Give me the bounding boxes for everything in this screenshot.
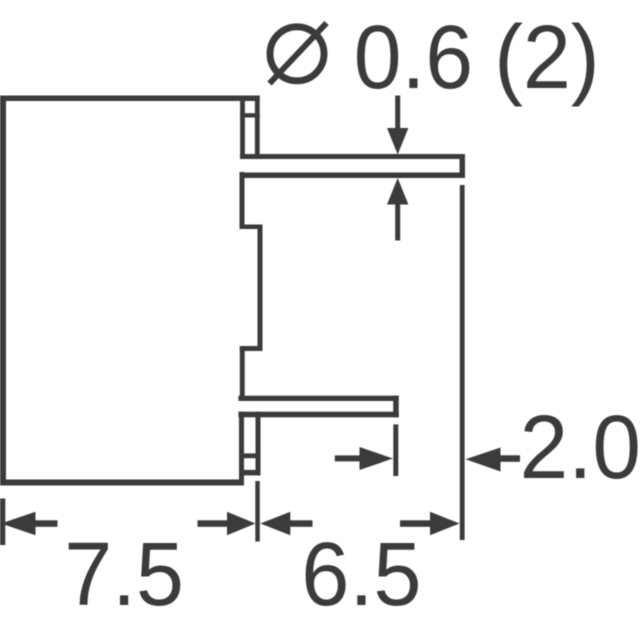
svg-text:0.6: 0.6 [354, 6, 473, 107]
dim 7.5 right arrow shaft [198, 520, 228, 527]
dim 6.5 right arrowhead [430, 512, 460, 535]
component body left edge [0, 96, 6, 486]
dia 0.6 top arrow shaft [395, 96, 400, 133]
body step-out edge [240, 225, 263, 230]
label dia symbol [270, 27, 324, 81]
svg-text:6.5: 6.5 [301, 523, 421, 624]
lower pin end cap [393, 396, 399, 418]
component body top edge [0, 96, 260, 102]
dim 2.0 arrowhead [466, 448, 501, 472]
lower pin bottom edge [238, 412, 398, 418]
body bulge right edge [258, 225, 263, 352]
dim 6.5 right arrow shaft [400, 520, 431, 527]
dim 2.0 arrow shaft [500, 455, 520, 462]
top pin-slot left wall [240, 96, 245, 160]
bottom pin-slot right wall [256, 412, 261, 476]
body right edge above lower pin [240, 346, 245, 401]
bottom pin-slot divider [239, 453, 261, 458]
left extension line below body [0, 499, 5, 546]
bottom pin-slot bottom edge [239, 470, 261, 476]
dim 7.5 left arrow shaft [35, 520, 58, 527]
dim 6.5 left arrow shaft [290, 520, 313, 527]
top pin-slot divider [240, 113, 260, 117]
body right edge below upper pin [240, 172, 245, 229]
svg-text:7.5: 7.5 [64, 523, 184, 624]
dim 6.5 left arrowhead [260, 512, 290, 535]
dim 7.5 right arrowhead [227, 512, 256, 535]
dia 0.6 top arrowhead [387, 128, 408, 155]
bottom pin-slot left wall [239, 412, 244, 486]
body step-in edge [240, 346, 263, 351]
top pin-slot right wall [255, 96, 260, 160]
dim 7.5 left arrowhead [1, 512, 36, 535]
dim 2.0 left arrowhead [360, 447, 394, 470]
svg-text:(2): (2) [494, 6, 599, 107]
lower pin top edge [238, 396, 398, 401]
svg-text:2.0: 2.0 [520, 397, 640, 497]
right extension line below body [255, 481, 259, 542]
upper pin bottom edge [240, 173, 465, 179]
dia 0.6 bottom arrowhead [387, 178, 408, 205]
dim 2.0 left arrow shaft [335, 455, 361, 461]
upper pin top edge [240, 154, 465, 159]
extension line from lower pin tip [393, 424, 398, 476]
upper pin end cap [460, 154, 466, 178]
component body bottom edge [0, 480, 244, 486]
extension line from upper pin tip [460, 185, 465, 540]
dia 0.6 bottom arrow shaft [395, 202, 400, 241]
